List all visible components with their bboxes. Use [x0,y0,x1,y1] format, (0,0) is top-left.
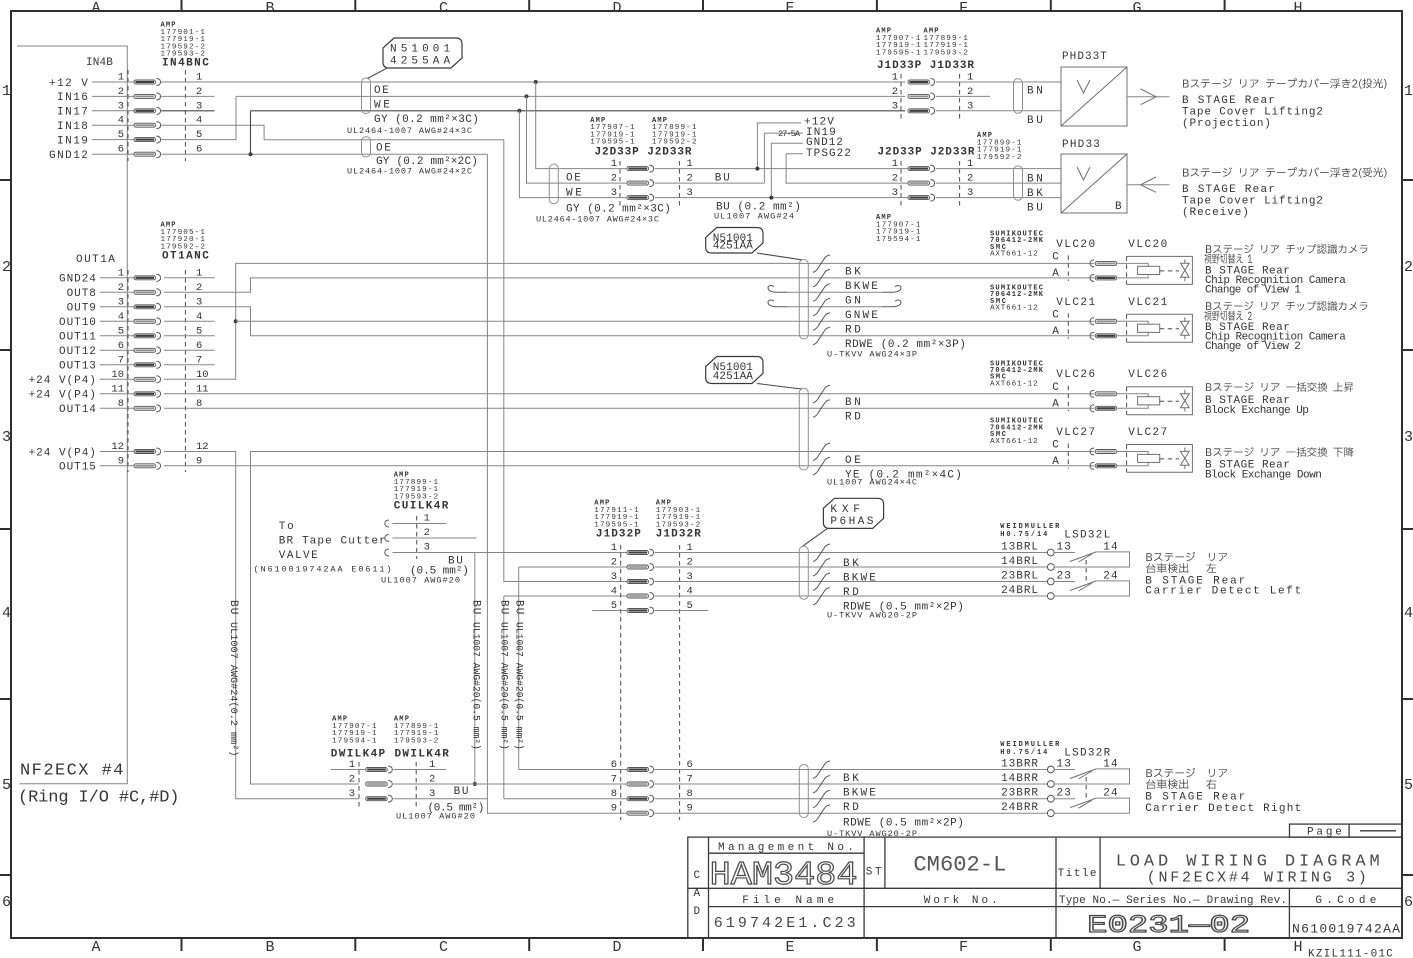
svg-text:RD: RD [845,325,862,337]
svg-text:2: 2 [611,557,617,569]
twist marks on VLC26/27 cable [813,385,830,403]
VLC20 valve symbol [1181,259,1190,281]
cable shield 4-core UL1007 to VLC26/27 [799,388,808,470]
svg-text:A: A [1052,268,1060,280]
svg-text:4251AA: 4251AA [713,371,754,383]
svg-text:(Receive): (Receive) [1182,207,1250,219]
OT1ANC pin signal labels [29,274,97,474]
svg-text:BN: BN [1027,174,1044,186]
svg-text:BU: BU [470,600,482,615]
cable shield at PHD33T input [1014,79,1023,114]
svg-text:C: C [1052,309,1060,321]
svg-text:IN4BNC: IN4BNC [162,58,209,70]
svg-text:VLC21: VLC21 [1056,297,1096,309]
svg-text:B STAGE Rear: B STAGE Rear [1182,95,1276,107]
IN4B pin contacts [92,79,161,158]
description JP VLC20 chip recognition camera [1206,244,1367,254]
svg-text:CM602-L: CM602-L [913,853,1006,878]
svg-text:OUT14: OUT14 [59,404,97,416]
LSD32L terminal circles [1047,549,1054,556]
svg-text:IN4B: IN4B [86,57,114,69]
svg-text:7: 7 [611,774,617,786]
svg-text:4: 4 [1404,605,1413,622]
CUILK4R pin3 wire to J1D32P pin1 with rail to DWILK4R pin2 junction [393,552,628,554]
svg-text:2: 2 [349,774,355,786]
svg-text:BK: BK [1027,188,1044,200]
svg-text:Carrier Detect Right: Carrier Detect Right [1145,803,1302,815]
junction IN19 tap to J2D33P pin2 [525,94,529,98]
svg-text:Block Exchange Up: Block Exchange Up [1205,405,1310,417]
svg-text:(Projection): (Projection) [1182,118,1272,130]
title block inner lines [708,837,710,938]
description JP PHD33 B stage rear tape cover lifting 2 receive [1183,167,1386,178]
VLC27 mating dashed line [1067,444,1069,469]
svg-text:C: C [1052,440,1060,452]
VLC27 solenoid coil [1138,454,1160,462]
svg-text:A: A [1052,398,1060,410]
wire IN18 pin4 jog down to 2C cable OE conductor [161,125,627,581]
svg-text:13: 13 [1057,758,1072,770]
svg-text:179595-1: 179595-1 [876,49,921,57]
IN4B pin numbers 1-6 [118,72,203,156]
svg-text:PHD33: PHD33 [1062,139,1101,151]
svg-text:A: A [91,0,100,17]
svg-text:F: F [959,0,968,17]
svg-text:OE: OE [566,172,582,184]
callout N51001 4251AA (upper) [706,228,763,254]
svg-text:1: 1 [892,158,898,170]
svg-text:C: C [1052,382,1060,394]
junction GND12 branch up to WE row [249,152,253,156]
svg-text:To: To [279,521,295,533]
svg-text:13BRL: 13BRL [1001,541,1039,553]
svg-text:14BRL: 14BRL [1001,556,1039,568]
svg-text:UL1007 AWG#20: UL1007 AWG#20 [396,812,475,822]
svg-text:IN16: IN16 [57,92,89,104]
svg-text:179592-2: 179592-2 [977,154,1022,162]
J1D33 mating dashed lines [900,74,902,119]
VLC26 valve body [1127,387,1193,415]
LSD32R switch contact 23-24 [1054,798,1075,800]
svg-text:E0231—02: E0231—02 [1087,911,1250,940]
VLC26 pin contacts [1090,390,1094,397]
VLC21 valve symbol [1181,317,1190,339]
svg-text:UL2464-1007 AWG#24×3C: UL2464-1007 AWG#24×3C [347,126,472,136]
svg-text:23BRR: 23BRR [1001,788,1039,800]
cable shield at J1D32 pins1-4 [799,546,808,599]
wire stub OUT13 pin7 [164,364,215,366]
svg-text:6: 6 [2,894,11,911]
svg-text:RD: RD [843,802,860,814]
J2D33R right output wires to PHD33 [936,168,1061,170]
svg-text:H: H [1293,939,1302,956]
svg-text:UL1007 AWG#20(0.5 mm²): UL1007 AWG#20(0.5 mm²) [499,622,510,750]
title block Page cell [1290,824,1403,837]
DWILK4P pin1 stub [331,769,366,771]
wire stub OUT10 pin4 [164,320,215,322]
svg-text:AXT661-12: AXT661-12 [990,305,1038,313]
IN4B pin signal labels +12V IN16 IN17 IN18 IN19 GND12 [49,78,89,162]
svg-text:J1D32R: J1D32R [656,529,701,541]
svg-text:B: B [265,0,274,17]
svg-text:5: 5 [2,777,11,794]
twist marks on VLC20/21 cable [813,255,830,273]
svg-text:179592-2: 179592-2 [652,139,697,147]
J2D33 right pin numbers [892,158,974,199]
OT1ANC pin numbers [111,267,208,467]
svg-text:A: A [1052,456,1060,468]
svg-text:OUT9: OUT9 [67,303,97,315]
VLC26 valve symbol [1181,390,1190,412]
taps from IN4B rows down to J2D33P left pins [536,82,627,169]
svg-text:WEIDMULLER: WEIDMULLER [1000,523,1060,531]
svg-text:ST: ST [866,867,883,879]
svg-text:BU: BU [498,600,510,615]
svg-text:E: E [785,0,794,17]
I/O unit NF2ECX #4 boundary bracket [17,46,127,784]
J1D32P pin5 stub [592,610,627,612]
svg-text:KXF: KXF [830,504,861,516]
DWILK4R pin3 output wire to GND12 rail [393,798,487,800]
svg-text:B STAGE Rear: B STAGE Rear [1182,184,1276,196]
connector IN4B mating dashed lines [127,70,129,161]
svg-text:UL2464-1007 AWG#24×3C: UL2464-1007 AWG#24×3C [536,215,659,225]
wire OUT8 pin2 jog up to VLC20 A row [164,278,1094,292]
svg-text:179594-1: 179594-1 [332,737,377,745]
LSD32L mechanical link dashed [1085,560,1087,583]
description JP VLC21 change of view 2 [1204,311,1252,321]
wire +24V pin12 to rail down to DWILK4P pin3 [164,452,359,799]
svg-text:TPSG22: TPSG22 [806,148,852,160]
svg-text:BU: BU [1027,115,1044,127]
svg-text:Tape Cover Lifting2: Tape Cover Lifting2 [1182,196,1324,208]
VLC27 valve body [1127,445,1193,473]
svg-text:VLC20: VLC20 [1128,239,1168,251]
svg-text:4251AA: 4251AA [713,241,754,253]
svg-text:2: 2 [892,86,898,98]
VLC26 solenoid coil [1138,397,1160,405]
svg-text:P6HAS: P6HAS [830,516,874,528]
J2D33 left pin numbers [611,158,693,199]
cable shield at J2D33 left input [549,164,558,204]
svg-text:G: G [1132,939,1141,956]
svg-text:BKWE: BKWE [843,573,877,585]
svg-text:BU: BU [715,172,731,184]
svg-text:2: 2 [1404,259,1413,276]
description JP VLC20 change of view 1 [1204,254,1252,264]
VLC20 solenoid coil [1138,266,1160,274]
svg-text:AXT661-12: AXT661-12 [990,251,1038,259]
svg-text:179595-1: 179595-1 [590,139,635,147]
svg-text:D: D [694,906,702,918]
J2D33R left output wires BU to right J2D33P [655,168,908,170]
description JP LSD32L B stage rear [1146,552,1227,561]
svg-text:2: 2 [2,259,11,276]
J1D32R output wires pins1-4 to LSD32L [654,552,1047,554]
svg-text:VLC20: VLC20 [1056,239,1096,251]
svg-text:14BRR: 14BRR [1001,773,1039,785]
LSD32L switch contact 23-24 [1054,581,1075,583]
svg-text:J1D32P: J1D32P [596,529,641,541]
svg-text:U-TKVV AWG20-2P: U-TKVV AWG20-2P [827,611,917,621]
VLC21 solenoid coil [1138,324,1160,332]
svg-text:OUT12: OUT12 [59,346,97,358]
svg-text:Work No.: Work No. [924,895,999,907]
description JP LSD32L carrier detect left [1146,563,1216,573]
svg-text:23: 23 [1057,570,1072,582]
cut spare pair GNWE wire [768,300,787,307]
svg-text:1: 1 [1404,83,1413,100]
twist marks on LSD32R cable [813,761,830,779]
svg-text:GN: GN [845,296,862,308]
svg-text:N610019742AA: N610019742AA [1292,922,1400,937]
svg-text:G: G [1132,0,1141,17]
rail J1D32P pin4 to pin8 [504,595,627,597]
svg-text:BU: BU [454,786,470,798]
svg-text:24BRL: 24BRL [1001,585,1039,597]
svg-text:OE: OE [845,455,862,467]
svg-text:(Ring I/O #C,#D): (Ring I/O #C,#D) [18,789,180,808]
wire OUT14 pin8 to VLC26 A [164,407,1094,409]
J1D32R pin5 output stub [654,610,708,612]
svg-text:BU: BU [227,600,239,615]
svg-text:U-TKVV AWG24×3P: U-TKVV AWG24×3P [827,350,917,360]
VLC20 valve body [1127,256,1193,284]
VLC27 valve symbol [1181,448,1190,470]
wire stub OUT12 pin6 [164,349,215,351]
svg-text:13: 13 [1057,541,1072,553]
svg-text:B STAGE Rear: B STAGE Rear [1145,792,1246,804]
svg-text:B: B [265,939,274,956]
svg-text:OUT11: OUT11 [59,332,97,344]
svg-text:C: C [1052,251,1060,263]
description JP LSD32R B stage rear [1146,768,1227,777]
cut spare pair GN wire [768,286,787,293]
rail J1D32P pin2 to pin6 [519,566,627,568]
svg-text:179593-2: 179593-2 [924,49,969,57]
svg-text:3: 3 [2,429,11,446]
twist marks on LSD32L cable [813,544,830,562]
description JP LSD32R carrier detect right [1146,779,1216,789]
svg-text:UL1007 AWG#24: UL1007 AWG#24 [714,212,794,222]
svg-text:8: 8 [611,788,617,800]
J2D33 left pin contacts [627,165,654,201]
svg-text:Block Exchange Down: Block Exchange Down [1205,469,1323,481]
svg-text:5: 5 [1404,777,1413,794]
svg-text:BK: BK [845,267,862,279]
VLC20 mating dashed line [1067,255,1069,281]
CUILK4R mating dashed line [416,516,418,559]
svg-text:Type No.— Series No.— Drawing: Type No.— Series No.— Drawing Rev. [1059,895,1287,907]
svg-text:J1D33P J1D33R: J1D33P J1D33R [877,60,974,72]
svg-text:27-5A: 27-5A [778,129,801,139]
junction +12V tap to J2D33P [534,80,538,84]
svg-text:1: 1 [892,72,898,84]
LSD32L switch contact 13-14 [1054,552,1075,554]
svg-text:A: A [91,939,100,956]
svg-text:GY (0.2 mm²×3C): GY (0.2 mm²×3C) [374,114,480,126]
svg-text:BR Tape Cutter: BR Tape Cutter [279,536,387,548]
svg-text:UL1007 AWG#20: UL1007 AWG#20 [381,576,460,586]
J1D32 pin contacts [627,549,654,816]
svg-text:KZIL111-01C: KZIL111-01C [1308,949,1394,958]
junction +24V tap to VLC21 C row [234,319,238,323]
svg-text:WEIDMULLER: WEIDMULLER [1000,741,1060,749]
wire stub IN17 pin3 [161,110,214,112]
svg-text:RDWE (0.5 mm²×2P): RDWE (0.5 mm²×2P) [843,817,965,829]
svg-text:2: 2 [892,173,898,185]
svg-text:OT1ANC: OT1ANC [162,250,209,262]
wire +12V row from IN4B pin1 to J1D33P pin1 [161,81,905,83]
description JP VLC26 block exchange up [1206,382,1353,392]
svg-text:9: 9 [611,803,617,815]
LSD32R mechanical link dashed [1085,777,1087,800]
svg-text:NF2ECX #4: NF2ECX #4 [20,762,124,781]
svg-text:A: A [694,888,702,900]
CUILK4R pin hooks [385,520,389,527]
svg-text:OUT8: OUT8 [67,288,97,300]
svg-text:OUT1A: OUT1A [76,254,116,266]
PHD33T output wire and emit arrow [1127,96,1169,98]
svg-text:C: C [439,0,448,17]
wire +24V pin10 riser to VLC20 C row [164,263,1094,379]
svg-text:BK: BK [843,558,860,570]
cable shield at J1D32 pins6-9 [799,765,808,818]
svg-text:BU: BU [513,600,525,615]
svg-text:HAM3484: HAM3484 [710,857,858,894]
wire IN19 pin5 jog up to OE row feeding J1D33P pin2 [161,96,236,139]
svg-text:J2D33P J2D33R: J2D33P J2D33R [595,147,692,159]
cable shield 3-pair U-TKVV to VLC20/21 [799,259,808,339]
svg-text:B: B [1115,201,1123,213]
svg-text:6: 6 [1404,894,1413,911]
svg-text:OE: OE [376,142,392,154]
wire OUT15 pin9 to VLC27 A [164,465,1094,467]
svg-text:IN18: IN18 [57,121,89,133]
callout N51001 4255AA [383,38,462,68]
svg-text:4: 4 [2,605,11,622]
svg-text:WE: WE [566,187,583,199]
J2D33 right mating dashed lines [900,161,902,206]
OT1ANC pin contacts [100,274,161,469]
svg-text:H: H [1293,0,1302,17]
J1D33 pin contacts [908,79,935,115]
svg-text:23BRL: 23BRL [1001,570,1039,582]
svg-text:BN: BN [1027,86,1044,98]
VLC26 mating dashed line [1067,386,1069,412]
LSD32R terminal circles [1047,766,1054,773]
svg-text:UL1007 AWG#20(0.5 mm²): UL1007 AWG#20(0.5 mm²) [471,622,482,750]
wire stub IN16 pin2 [161,95,214,97]
svg-text:13BRR: 13BRR [1001,758,1039,770]
PHD33 input wire and receive arrow [1127,184,1169,186]
svg-text:BU: BU [1027,203,1044,215]
description JP VLC21 chip recognition camera [1206,301,1367,311]
svg-text:3: 3 [892,100,898,112]
svg-text:VALVE: VALVE [279,550,319,562]
cable shield at PHD33 input [1014,166,1023,200]
CUILK4R pin numbers [424,513,430,554]
J1D33 pin numbers [892,72,974,113]
svg-text:WE: WE [374,99,391,111]
svg-text:IN17: IN17 [57,107,89,119]
VLC21 valve body [1127,314,1193,342]
svg-text:GND24: GND24 [59,274,97,286]
svg-text:File Name: File Name [742,895,835,907]
svg-text:UL1007 AWG#24(0.2 mm²): UL1007 AWG#24(0.2 mm²) [227,622,239,757]
svg-text:VLC26: VLC26 [1056,369,1096,381]
svg-text:BN: BN [845,397,862,409]
svg-text:H0.75/14: H0.75/14 [1000,531,1047,539]
svg-text:+12 V: +12 V [49,78,89,90]
LSD32R switch contact 13-14 [1054,769,1075,771]
svg-text:3: 3 [349,788,355,800]
description JP PHD33T B stage rear tape cover lifting 2 projection [1183,78,1386,89]
svg-text:VLC21: VLC21 [1128,297,1168,309]
svg-text:3: 3 [892,187,898,199]
svg-text:+24 V(P4): +24 V(P4) [29,390,97,402]
svg-text:H0.75/14: H0.75/14 [1000,749,1047,757]
wire stub GND24 pin1 [164,277,215,279]
svg-text:GND12: GND12 [49,150,89,162]
J1D32 pin numbers [611,542,693,815]
svg-text:BKWE: BKWE [845,281,879,293]
svg-text:BKWE: BKWE [843,788,877,800]
svg-text:3: 3 [1404,429,1413,446]
callout N51001 4251AA (lower) [706,357,763,384]
VLC21 mating dashed line [1067,313,1069,339]
svg-text:Title: Title [1058,868,1098,880]
svg-text:BK: BK [843,773,860,785]
svg-text:RD: RD [845,412,862,424]
svg-text:UL2464-1007 AWG#24×2C: UL2464-1007 AWG#24×2C [347,167,472,177]
svg-text:Change of View 2: Change of View 2 [1205,341,1302,353]
wire GND12 net WE row to J1D33P pin3 [251,110,906,112]
VLC27 pin contacts [1090,448,1094,455]
DWILK mating dashed lines [358,762,360,807]
DWILK pin contacts [366,766,393,802]
description JP VLC27 block exchange down [1206,447,1354,457]
svg-text:OUT15: OUT15 [59,462,97,474]
svg-text:LSD32L: LSD32L [1064,530,1111,542]
svg-text:1: 1 [424,513,430,525]
svg-text:E: E [785,939,794,956]
callout KXF P6HAS [823,498,883,528]
svg-text:1: 1 [611,542,617,554]
svg-text:C: C [694,870,702,882]
wire +24V pin11 to VLC26 C [164,393,1094,395]
svg-text:179594-1: 179594-1 [876,236,921,244]
DWILK4R pin1 output stub [393,769,446,771]
VLC20 pin contacts [1090,260,1094,267]
wire VLC27 C row with rail down to DWILK4P pin2 [251,452,1095,785]
svg-text:D: D [612,0,621,17]
svg-text:4: 4 [611,586,617,598]
svg-text:+24 V(P4): +24 V(P4) [29,447,97,459]
DWILK4R pin2 output wire to J1D32P pin7 [393,783,627,785]
svg-text:Carrier Detect Left: Carrier Detect Left [1145,586,1302,598]
cable shield 3-core UL2464 [362,78,371,114]
J1D33R output wires to PHD33T [936,81,1061,83]
wire GND12 pin6 to rail down to J1D32P pin9 [161,153,487,155]
DWILK pin numbers [349,759,436,800]
svg-text:3: 3 [611,571,617,583]
svg-text:AXT661-12: AXT661-12 [990,438,1038,446]
junction GND12 tap to J2D33P pin3 [517,109,521,113]
svg-text:Tape Cover Lifting2: Tape Cover Lifting2 [1182,107,1324,119]
svg-text:1: 1 [2,83,11,100]
svg-text:UL1007 AWG#20(0.5 mm²): UL1007 AWG#20(0.5 mm²) [514,622,525,750]
